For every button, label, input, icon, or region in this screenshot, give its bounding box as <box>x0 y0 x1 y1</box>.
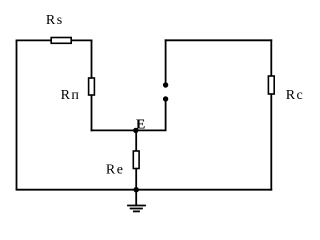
junction dot at bottom rail <box>134 187 139 192</box>
wire: gap branch vertical upper <box>165 39 167 84</box>
wire: top-right rail <box>165 39 273 41</box>
wire: top-left rail right segment <box>71 39 92 41</box>
wire: right vertical rail upper <box>270 39 272 76</box>
wire: bottom rail <box>16 189 273 191</box>
resistor Rs <box>51 38 71 44</box>
wire: right vertical rail lower <box>270 94 272 191</box>
resistor Rp <box>89 78 95 95</box>
wire: Rp branch vertical upper <box>91 40 93 79</box>
ground bar 2 <box>130 208 143 210</box>
wire: top-left rail left segment <box>16 39 52 41</box>
gap terminal dot upper <box>163 82 168 87</box>
wire: middle horizontal to node E <box>91 129 167 131</box>
ground bar 1 <box>127 205 146 207</box>
wire: Re down to bottom rail <box>135 169 137 191</box>
gap terminal dot lower <box>163 96 168 101</box>
svg-text:Rc: Rc <box>286 88 305 103</box>
resistor Rc <box>268 76 274 94</box>
node E junction dot <box>133 128 138 133</box>
ground stub <box>135 190 137 206</box>
resistor Re <box>133 151 139 169</box>
svg-text:Re: Re <box>106 162 125 177</box>
wire: gap branch vertical lower <box>165 100 167 130</box>
wire: left vertical rail <box>16 40 18 189</box>
svg-text:Rп: Rп <box>61 88 81 103</box>
ground bar 3 <box>133 210 140 212</box>
wire: node E down to Re <box>135 130 137 151</box>
wire: Rp branch vertical lower <box>91 95 93 131</box>
ground <box>127 190 146 212</box>
svg-text:Rs: Rs <box>46 13 64 28</box>
svg-text:E: E <box>136 118 145 133</box>
